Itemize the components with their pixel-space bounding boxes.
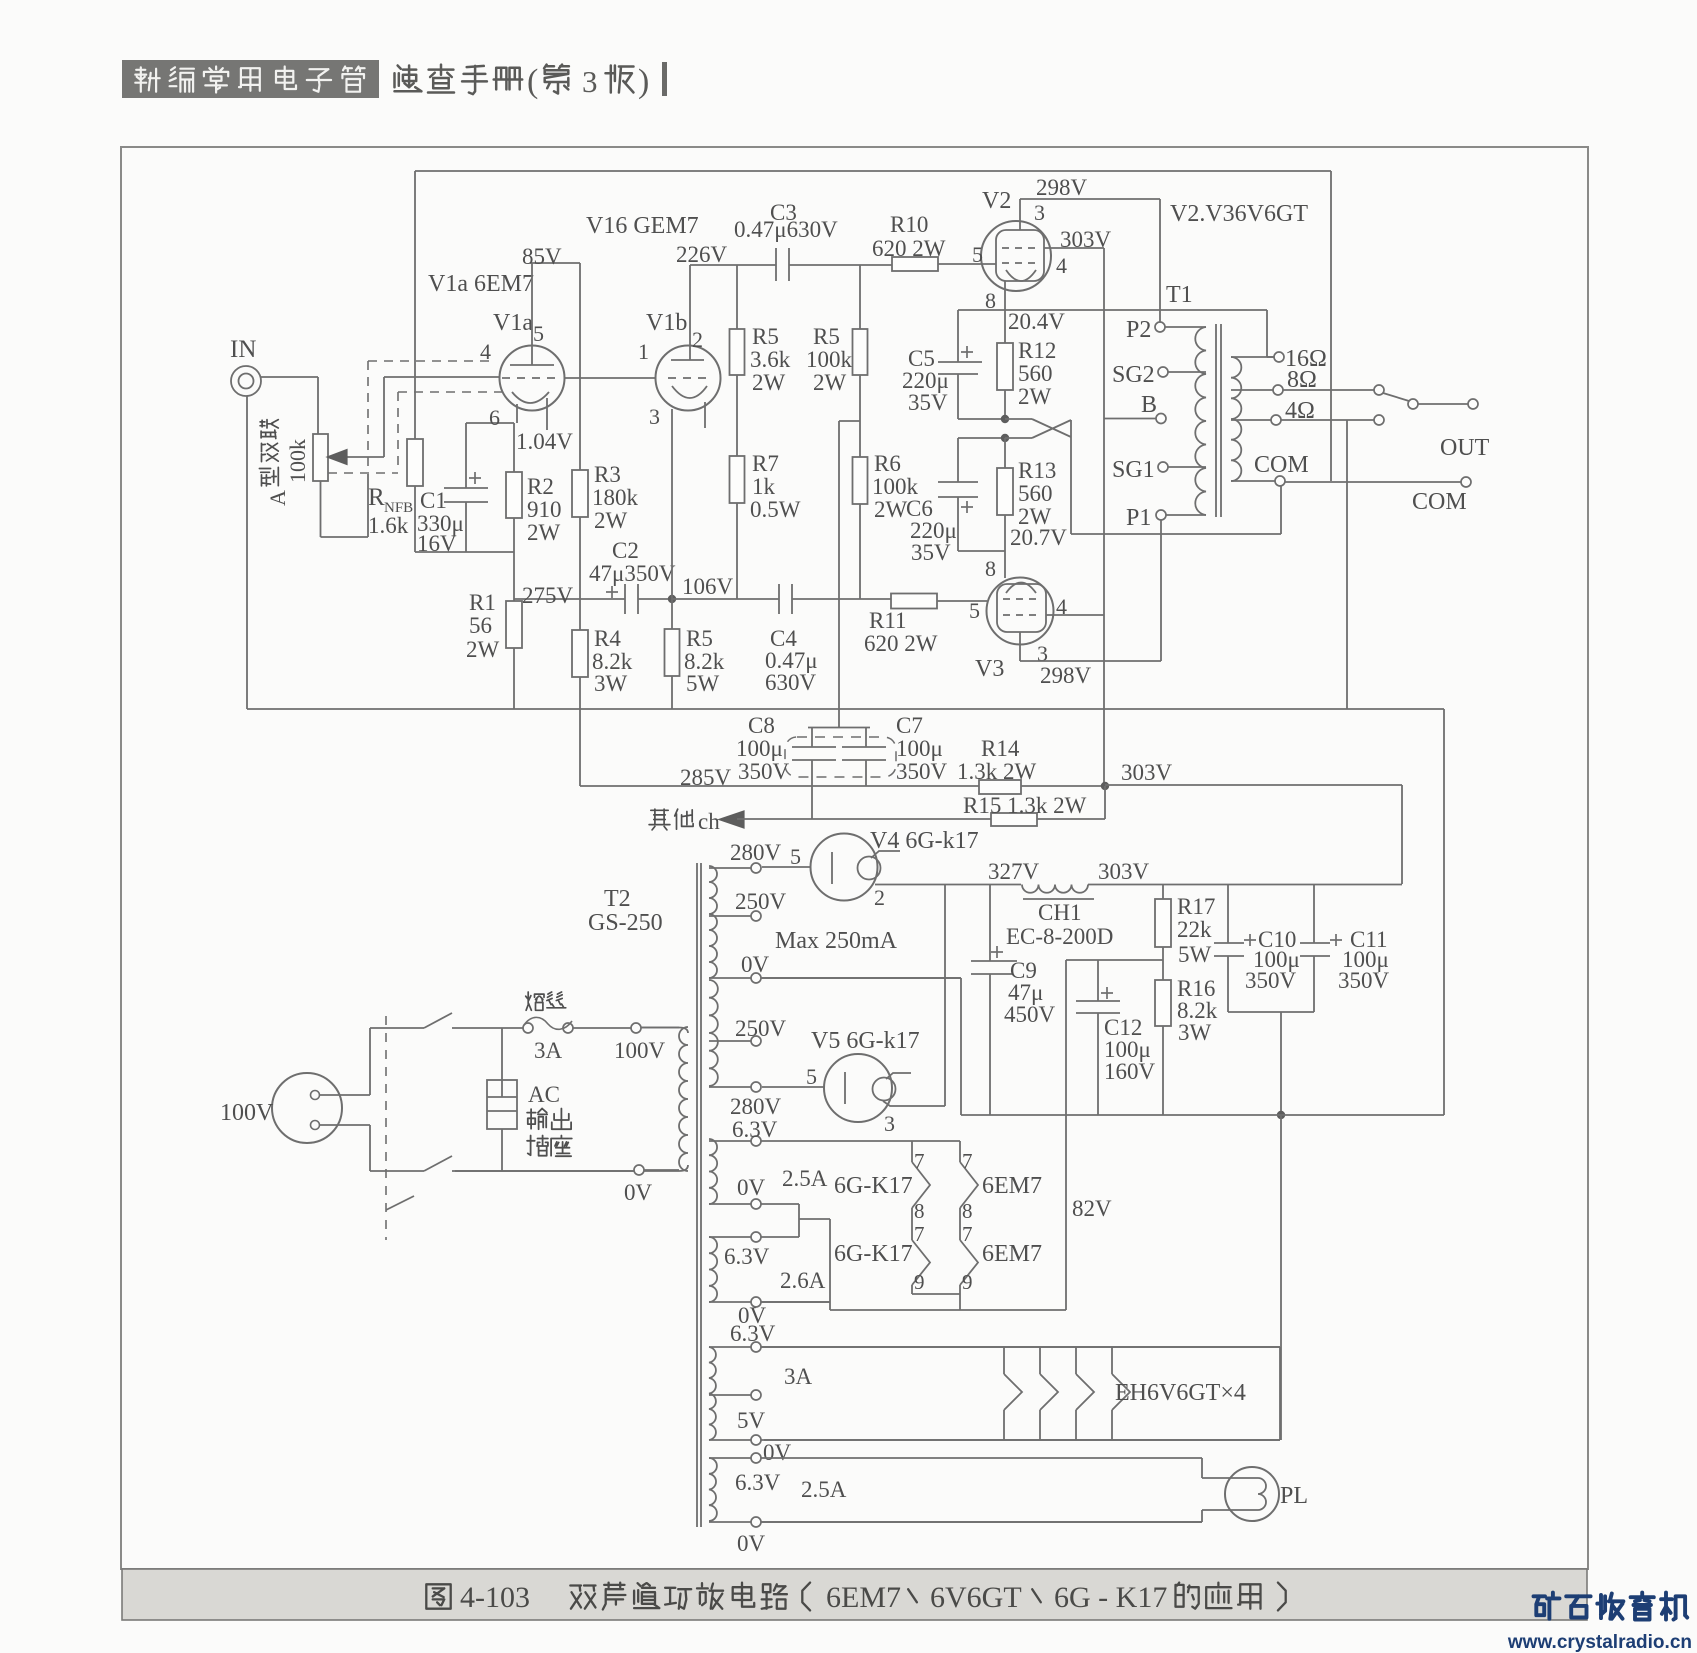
svg-text:1.3k 2W: 1.3k 2W (957, 759, 1037, 784)
wire V1a plate 85V (531, 263, 533, 365)
svg-text:2: 2 (874, 885, 885, 910)
svg-text:5: 5 (806, 1064, 817, 1089)
svg-text:5V: 5V (737, 1408, 766, 1433)
svg-text:6G - K17: 6G - K17 (1054, 1581, 1167, 1614)
wire 552 rail (415, 551, 514, 553)
svg-text:6EM7: 6EM7 (982, 1173, 1042, 1199)
svg-text:5: 5 (969, 598, 980, 623)
svg-text:910: 910 (527, 497, 562, 522)
svg-text:16V: 16V (417, 531, 457, 556)
svg-text:EH6V6GT×4: EH6V6GT×4 (1115, 1380, 1246, 1406)
svg-text:298V: 298V (1036, 175, 1088, 200)
svg-text:1.6k: 1.6k (368, 513, 409, 538)
wire R5/R6 tap to C8 (839, 420, 860, 422)
svg-text:20.4V: 20.4V (1008, 309, 1065, 334)
svg-text:7: 7 (962, 1149, 973, 1173)
tap 16ohm (1231, 356, 1274, 358)
T1 secondary winding (1231, 357, 1241, 481)
svg-text:560: 560 (1018, 361, 1053, 386)
tap 4ohm (1231, 419, 1271, 421)
svg-text:P2: P2 (1126, 317, 1151, 343)
node bus2 (1277, 1111, 1285, 1119)
pilot lamp PL (761, 1457, 1202, 1459)
other channel arrow line R15 (719, 811, 744, 828)
svg-text:250V: 250V (735, 1016, 787, 1041)
svg-text:2: 2 (692, 327, 703, 352)
T2 taps (709, 867, 751, 869)
svg-text:3: 3 (582, 64, 598, 99)
svg-text:6G-K17: 6G-K17 (834, 1241, 913, 1267)
svg-text:327V: 327V (988, 859, 1040, 884)
svg-text:R5: R5 (813, 324, 840, 349)
resistor R1 56 2W (506, 601, 522, 648)
svg-text:GS-250: GS-250 (588, 910, 663, 936)
capacitor C10 100u350V (1227, 884, 1229, 943)
svg-text:8: 8 (962, 1199, 973, 1223)
svg-text:160V: 160V (1104, 1059, 1156, 1084)
svg-text:3W: 3W (1178, 1020, 1212, 1045)
svg-text:6: 6 (489, 405, 500, 430)
wire cathode fb 16ohm line (958, 309, 1267, 311)
tap 8ohm (1231, 389, 1273, 391)
capacitor block C8/C7 (808, 727, 870, 729)
top feedback bus (415, 170, 1331, 172)
wire C10/C11 join (1228, 1011, 1314, 1013)
svg-text:V1a 6EM7: V1a 6EM7 (428, 271, 534, 297)
resistor R16 8.2k 3W (1155, 980, 1171, 1026)
tube V5 6G-K17 (824, 1054, 892, 1122)
svg-text:180k: 180k (592, 485, 639, 510)
wire 275V/106V signal line (514, 598, 625, 600)
svg-text:EC-8-200D: EC-8-200D (1006, 924, 1113, 949)
switch blade upper (424, 1013, 452, 1028)
wire V3 plate to P1 (1019, 632, 1021, 661)
svg-text:3W: 3W (594, 671, 628, 696)
X crossing wires (1005, 418, 1032, 420)
svg-text:3A: 3A (534, 1038, 563, 1063)
svg-text:R7: R7 (752, 451, 779, 476)
tube V3 6V6GT (987, 578, 1054, 645)
svg-text:PL: PL (1280, 1483, 1308, 1509)
svg-text:C7: C7 (896, 713, 923, 738)
svg-text:1k: 1k (752, 474, 776, 499)
svg-text:R1: R1 (469, 590, 496, 615)
svg-text:298V: 298V (1040, 663, 1092, 688)
wire anode column R3/R4 (579, 263, 581, 470)
svg-text:(: ( (527, 63, 538, 100)
terminal P2 (1155, 322, 1165, 332)
svg-text:R13: R13 (1018, 458, 1056, 483)
capacitor C6 220u35V (957, 438, 959, 482)
svg-text:106V: 106V (682, 574, 734, 599)
watermark crystalradio (1534, 1593, 1560, 1619)
svg-text:T2: T2 (604, 886, 631, 912)
svg-text:V3: V3 (975, 656, 1004, 682)
svg-text:R4: R4 (594, 626, 621, 651)
svg-text:): ) (638, 63, 649, 100)
svg-text:C1: C1 (420, 488, 447, 513)
bus y1115 (961, 1114, 1444, 1116)
svg-text:Max 250mA: Max 250mA (775, 928, 898, 954)
svg-text:2W: 2W (874, 497, 908, 522)
svg-text:280V: 280V (730, 1094, 782, 1119)
svg-text:R11: R11 (869, 608, 907, 633)
svg-text:85V: 85V (522, 244, 562, 269)
EH6V6GT heater box (761, 1346, 1280, 1348)
svg-text:350V: 350V (1245, 968, 1297, 993)
gang dashed links (368, 360, 492, 362)
svg-text:35V: 35V (911, 540, 951, 565)
fuse 3A (523, 1023, 533, 1033)
svg-text:1.04V: 1.04V (516, 429, 573, 454)
svg-text:0V: 0V (737, 1531, 766, 1556)
capacitor C1 330u16V (465, 423, 467, 488)
mains plug 100V (272, 1073, 342, 1143)
choke CH1 EC-8-200D (1022, 885, 1088, 893)
capacitor C3 0.47u630V (775, 248, 777, 281)
svg-text:7: 7 (914, 1222, 925, 1246)
svg-text:ch: ch (698, 809, 720, 834)
svg-text:6V6GT: 6V6GT (930, 1581, 1022, 1614)
svg-text:V5 6G-k17: V5 6G-k17 (811, 1028, 920, 1054)
resistor R14 1.3k 2W (979, 780, 1021, 794)
wire V2 cathode pin8 (1004, 281, 1006, 343)
svg-text:20.7V: 20.7V (1010, 525, 1067, 550)
switch blade lower (424, 1156, 452, 1171)
resistor R4 8.2k 3W (572, 630, 588, 677)
svg-text:6G-K17: 6G-K17 (834, 1173, 913, 1199)
svg-text:3A: 3A (784, 1364, 813, 1389)
resistor R7 1k 0.5W (730, 456, 745, 503)
caption bar (122, 1569, 1587, 1620)
svg-text:226V: 226V (676, 242, 728, 267)
terminal B (1156, 414, 1166, 424)
resistor R11 620 2W (891, 594, 937, 609)
svg-text:6.3V: 6.3V (724, 1244, 770, 1269)
resistor R2 910 2W (513, 423, 515, 472)
speaker selector switch (1374, 385, 1384, 395)
svg-text:350V: 350V (1338, 968, 1390, 993)
T1 core (1215, 324, 1217, 517)
schematic border frame (121, 147, 1588, 1569)
svg-text:COM: COM (1254, 452, 1309, 478)
svg-text:www.crystalradio.cn: www.crystalradio.cn (1507, 1632, 1692, 1653)
resistor R6 100k 2W (853, 457, 868, 504)
svg-text:SG1: SG1 (1112, 457, 1155, 483)
82V line (1066, 959, 1163, 961)
svg-text:630V: 630V (765, 670, 817, 695)
svg-text:0V: 0V (763, 1440, 792, 1465)
svg-text:620 2W: 620 2W (872, 236, 946, 261)
svg-text:3: 3 (884, 1111, 895, 1136)
capacitor C4 0.47u630V (778, 584, 780, 614)
heater top line (911, 1141, 913, 1162)
svg-text:CH1: CH1 (1038, 900, 1081, 925)
svg-text:350V: 350V (738, 759, 790, 784)
heater series jog (761, 1203, 799, 1205)
svg-text:R5: R5 (752, 324, 779, 349)
svg-text:5W: 5W (1178, 942, 1212, 967)
svg-text:C8: C8 (748, 713, 775, 738)
wire V5 out riser (883, 1101, 945, 1106)
svg-text:5: 5 (533, 321, 544, 346)
svg-text:5: 5 (972, 242, 983, 267)
svg-text:7: 7 (914, 1149, 925, 1173)
switch gang dashed (385, 1016, 387, 1240)
svg-text:8: 8 (914, 1199, 925, 1223)
svg-text:SG2: SG2 (1112, 362, 1155, 388)
svg-text:COM: COM (1412, 489, 1467, 515)
svg-text:2W: 2W (594, 508, 628, 533)
svg-text:R17: R17 (1177, 894, 1215, 919)
svg-text:V4 6G-k17: V4 6G-k17 (870, 828, 979, 854)
svg-text:6.3V: 6.3V (730, 1321, 776, 1346)
svg-text:R12: R12 (1018, 338, 1056, 363)
resistor R15 1.3k 2W (991, 813, 1037, 826)
tube V2 6V6GT (981, 221, 1051, 291)
T2 secondary windings (709, 866, 717, 978)
svg-text:3.6k: 3.6k (750, 347, 791, 372)
terminal SG2 (1158, 367, 1168, 377)
capacitor C5 220u35V (957, 310, 959, 362)
resistor R5 100k 2W (859, 265, 861, 329)
node dots phase (1001, 415, 1009, 423)
svg-text:0.47μ630V: 0.47μ630V (734, 217, 838, 242)
svg-text:A: A (265, 490, 290, 506)
wire V1b plate 226V line (689, 265, 691, 360)
svg-text:AC: AC (528, 1082, 560, 1107)
resistor RNFB 1.6k (407, 439, 423, 486)
capacitor C2 47u350V (624, 584, 626, 614)
svg-text:450V: 450V (1004, 1002, 1056, 1027)
potentiometer A-type 100k (313, 434, 328, 481)
svg-text:IN: IN (230, 336, 256, 363)
node 303V (1101, 782, 1109, 790)
svg-text:0V: 0V (741, 952, 770, 977)
svg-text:V16 GEM7: V16 GEM7 (586, 213, 699, 239)
svg-text:22k: 22k (1177, 917, 1212, 942)
svg-text:R5: R5 (686, 626, 713, 651)
svg-text:2W: 2W (752, 370, 786, 395)
svg-text:620 2W: 620 2W (864, 631, 938, 656)
svg-text:2W: 2W (1018, 384, 1052, 409)
tube V4 6G-K17 (811, 834, 878, 901)
wire right riser (1443, 709, 1445, 1115)
svg-text:35V: 35V (908, 390, 948, 415)
svg-text:4-103: 4-103 (460, 1581, 530, 1614)
wire V4 pin5 from 280V (762, 866, 810, 868)
svg-text:82V: 82V (1072, 1196, 1112, 1221)
resistor R13 560 2W (1004, 438, 1006, 468)
capacitor C11 100u350V (1313, 884, 1315, 943)
svg-text:0V: 0V (737, 1175, 766, 1200)
svg-text:R6: R6 (874, 451, 901, 476)
svg-text:3: 3 (649, 404, 660, 429)
svg-text:350V: 350V (896, 759, 948, 784)
svg-text:0V: 0V (624, 1180, 653, 1205)
svg-text:2.5A: 2.5A (782, 1166, 828, 1191)
plug lower lead (320, 1124, 370, 1126)
svg-text:47μ350V: 47μ350V (589, 561, 676, 586)
svg-text:6.3V: 6.3V (735, 1470, 781, 1495)
svg-text:R: R (368, 484, 385, 511)
svg-text:6.3V: 6.3V (732, 1117, 778, 1142)
svg-text:100V: 100V (614, 1038, 666, 1063)
pot wiper arrow (336, 456, 384, 458)
wire 303V U to PSU (1105, 784, 1402, 786)
PSU 327V line (875, 884, 1021, 886)
svg-text:6EM7: 6EM7 (826, 1581, 901, 1614)
svg-text:5: 5 (790, 844, 801, 869)
svg-text:560: 560 (1018, 481, 1053, 506)
header banner (122, 60, 379, 98)
ground bus y709 (247, 708, 1444, 710)
svg-text:0.5W: 0.5W (750, 497, 801, 522)
svg-text:2W: 2W (813, 370, 847, 395)
svg-text:100V: 100V (220, 1100, 274, 1126)
svg-text:100μ: 100μ (736, 736, 783, 761)
svg-text:V2.V36V6GT: V2.V36V6GT (1170, 201, 1308, 227)
svg-text:T1: T1 (1166, 282, 1193, 308)
svg-text:R10: R10 (890, 212, 928, 237)
terminal COM secondary (1231, 480, 1275, 482)
svg-text:R14: R14 (981, 736, 1020, 761)
T2 core (696, 863, 698, 1527)
svg-text:275V: 275V (522, 583, 574, 608)
heater chevrons 6G-K17/6EM7 (912, 1162, 930, 1208)
svg-text:P1: P1 (1126, 505, 1151, 531)
capacitor C9 47u450V (989, 884, 991, 961)
node 106V (668, 595, 676, 603)
svg-text:56: 56 (469, 613, 492, 638)
svg-text:V2: V2 (982, 188, 1011, 214)
svg-text:9: 9 (962, 1270, 973, 1294)
wire V1a cathode line (466, 422, 514, 424)
svg-text:2.5A: 2.5A (801, 1477, 847, 1502)
svg-text:B: B (1141, 392, 1157, 418)
wire V1b cathode pin3 (671, 409, 673, 599)
svg-text:100k: 100k (285, 439, 310, 483)
svg-text:2W: 2W (466, 637, 500, 662)
svg-text:100k: 100k (806, 347, 853, 372)
capacitor C12 100u160V (1097, 960, 1099, 1001)
svg-text:V1b: V1b (646, 310, 687, 336)
svg-text:2W: 2W (527, 520, 561, 545)
svg-text:5W: 5W (686, 671, 720, 696)
svg-text:OUT: OUT (1440, 435, 1490, 461)
wire V3 screen to 303V (1046, 614, 1104, 616)
svg-text:2.6A: 2.6A (780, 1268, 826, 1293)
svg-text:100μ: 100μ (896, 736, 943, 761)
wire NFB left drop (414, 171, 416, 439)
svg-text:250V: 250V (735, 889, 787, 914)
svg-text:4: 4 (1056, 253, 1067, 278)
tube V1a (500, 346, 565, 411)
svg-text:6EM7: 6EM7 (982, 1241, 1042, 1267)
resistor R10 620 2W (892, 257, 938, 271)
svg-text:303V: 303V (1098, 859, 1150, 884)
AC outlet box (487, 1080, 517, 1129)
svg-text:R15 1.3k 2W: R15 1.3k 2W (963, 793, 1087, 818)
svg-text:4: 4 (480, 339, 491, 364)
svg-text:7: 7 (962, 1222, 973, 1246)
svg-text:C2: C2 (612, 538, 639, 563)
resistor R12 560 2W (997, 343, 1013, 390)
terminal SG1 (1158, 462, 1168, 472)
resistor R5 3.6k 2W (736, 265, 738, 329)
svg-text:9: 9 (914, 1270, 925, 1294)
resistor R17 22k 5W (1162, 884, 1164, 899)
terminal P1 (1156, 510, 1166, 520)
svg-text:3: 3 (1034, 200, 1045, 225)
input jack IN (231, 366, 261, 396)
svg-text:285V: 285V (680, 765, 732, 790)
svg-text:1: 1 (638, 339, 649, 364)
0V return line (762, 977, 961, 979)
285V line (580, 785, 979, 787)
svg-text:303V: 303V (1121, 760, 1173, 785)
svg-text:V1a: V1a (493, 310, 533, 336)
wire V2 screen 303V (1044, 247, 1104, 249)
tube V1b (656, 346, 721, 411)
resistor R5 8.2k 5W (671, 599, 673, 629)
svg-text:R2: R2 (527, 474, 554, 499)
svg-text:280V: 280V (730, 840, 782, 865)
svg-text:8: 8 (985, 556, 996, 581)
wire V2 plate 298V to P2 (1019, 199, 1021, 230)
svg-text:R3: R3 (594, 462, 621, 487)
